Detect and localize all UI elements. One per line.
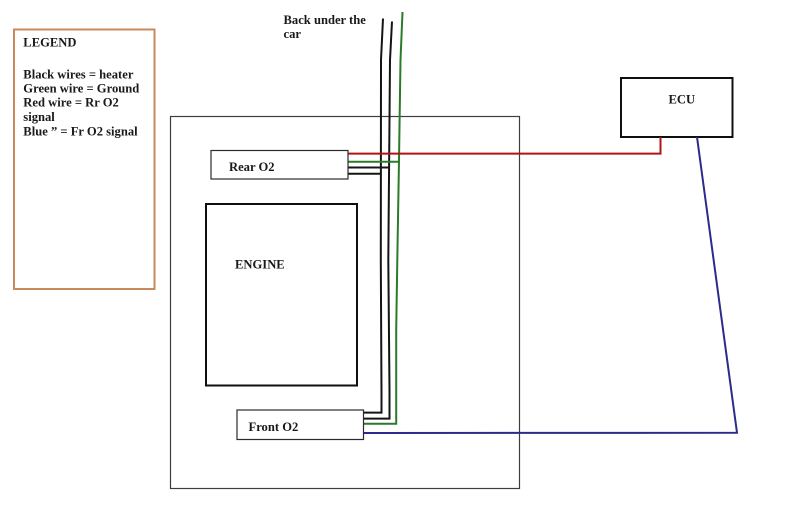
svg-text:Front O2: Front O2 [249, 420, 299, 434]
Front O2 box [237, 410, 364, 440]
svg-text:ECU: ECU [669, 92, 696, 106]
Rear O2 box [211, 151, 348, 180]
svg-text:Blue ” = Fr O2 signal: Blue ” = Fr O2 signal [23, 125, 138, 139]
red Rr O2 signal wire (Rear O2 to ECU) [348, 137, 661, 154]
black heater stub from Rear O2 (lower, to wire 1) [348, 173, 382, 175]
black heater wire 2 (right vertical, top to Front O2) [364, 22, 392, 419]
legend box [14, 30, 155, 290]
svg-text:Rear O2: Rear O2 [229, 160, 275, 174]
svg-text:Back under the: Back under the [284, 13, 367, 27]
svg-text:LEGEND: LEGEND [23, 36, 76, 50]
svg-text:Red wire = Rr O2: Red wire = Rr O2 [23, 96, 119, 110]
green ground wire (top to Front O2) [364, 12, 403, 424]
black heater wire 1 (left vertical, top to Front O2) [364, 19, 383, 413]
green ground stub from Rear O2 [348, 161, 400, 163]
svg-text:Green wire = Ground: Green wire = Ground [23, 81, 139, 95]
black heater stub from Rear O2 (upper, to wire 2) [348, 167, 390, 169]
svg-text:Black wires = heater: Black wires = heater [23, 67, 134, 81]
svg-text:ENGINE: ENGINE [235, 258, 285, 272]
blue Fr O2 signal wire (ECU to Front O2) [364, 137, 737, 433]
ENGINE box [206, 204, 357, 386]
engine bay box [171, 117, 520, 489]
ECU box [621, 78, 733, 137]
svg-text:signal: signal [23, 110, 55, 124]
svg-text:car: car [284, 27, 302, 41]
